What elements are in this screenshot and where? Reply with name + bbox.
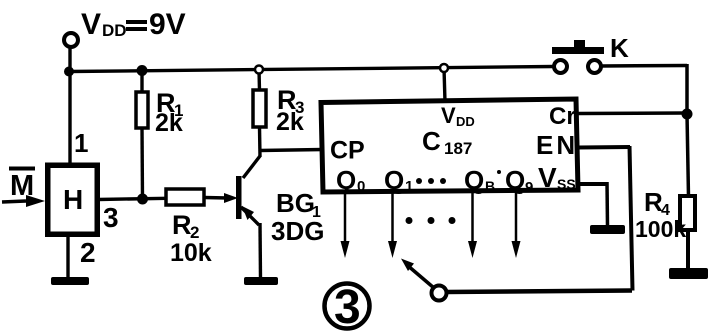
svg-text:10k: 10k: [170, 239, 212, 267]
svg-text:9V: 9V: [149, 8, 186, 41]
svg-text:3: 3: [103, 202, 119, 233]
svg-text:2: 2: [80, 237, 96, 268]
svg-text:9: 9: [525, 179, 533, 196]
svg-text:K: K: [610, 33, 629, 63]
svg-text:Q: Q: [505, 165, 525, 195]
svg-text:1: 1: [74, 128, 88, 158]
svg-text:1: 1: [405, 178, 413, 195]
svg-text:CP: CP: [330, 137, 365, 165]
svg-text:EN: EN: [536, 130, 578, 160]
svg-text:B: B: [485, 178, 495, 194]
svg-text:V: V: [538, 162, 557, 193]
svg-text:Cr: Cr: [549, 103, 576, 130]
svg-text:R: R: [172, 210, 192, 240]
svg-text:H: H: [63, 184, 83, 215]
svg-text:DD: DD: [456, 114, 475, 129]
svg-text:3DG: 3DG: [271, 216, 324, 246]
svg-text:V: V: [81, 8, 101, 41]
svg-text:3: 3: [334, 281, 361, 334]
svg-text:Q: Q: [464, 165, 484, 195]
svg-text:Q: Q: [384, 165, 404, 195]
svg-text:0: 0: [357, 178, 365, 195]
svg-text:BG: BG: [276, 188, 315, 218]
svg-text:V: V: [441, 103, 456, 128]
svg-text:2k: 2k: [155, 109, 183, 137]
svg-text:DD: DD: [102, 21, 127, 40]
svg-text:2k: 2k: [276, 108, 304, 136]
svg-text:C: C: [422, 126, 441, 156]
svg-text:Q: Q: [336, 165, 356, 195]
svg-text:187: 187: [444, 139, 472, 158]
svg-text:100k: 100k: [635, 216, 686, 242]
svg-text:SS: SS: [557, 176, 576, 192]
